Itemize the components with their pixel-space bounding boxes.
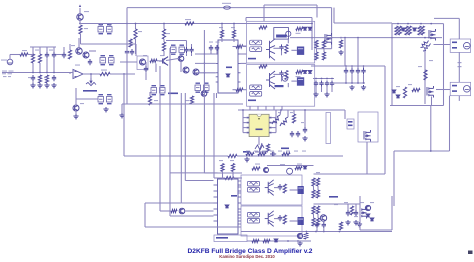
gate driver IC U-B1g [298, 186, 304, 194]
resistor boxed B2b [248, 218, 260, 223]
resistor R36 [339, 40, 342, 48]
wire [170, 215, 214, 217]
diode [402, 28, 406, 31]
wire [458, 52, 460, 82]
resistor R17 [150, 59, 157, 62]
potentiometer VR1 [86, 78, 96, 86]
resistor colB x318d [316, 218, 319, 226]
ground [324, 92, 329, 97]
wire [363, 74, 365, 83]
wire [458, 18, 460, 39]
junction [46, 72, 48, 74]
resistor R30 [266, 144, 269, 152]
wire [76, 98, 98, 100]
wire vertical feed 2 [184, 93, 186, 181]
wire [345, 74, 347, 83]
junction [397, 23, 399, 25]
zener block D7 D8 [195, 85, 209, 91]
resistor R21a [405, 26, 408, 35]
resistor colB x313.5c [312, 206, 315, 214]
wire vertical bus A [159, 66, 161, 211]
transistor Q4 [178, 56, 184, 62]
wire [317, 214, 319, 218]
IC U4 regulator [326, 113, 331, 144]
diode [303, 71, 307, 74]
junction [315, 78, 317, 80]
wire [326, 87, 328, 92]
wire [391, 196, 393, 230]
resistor colB x318b [316, 190, 319, 198]
label A1 [296, 33, 301, 34]
wire [357, 38, 359, 66]
label C3 [28, 77, 32, 78]
wire [287, 110, 289, 117]
label R15 [231, 27, 235, 28]
wire [357, 74, 359, 83]
resistor R28 diagonal [280, 117, 288, 126]
junction [315, 231, 317, 233]
wire [275, 110, 277, 133]
wire [272, 127, 276, 129]
junction [345, 82, 347, 84]
junction [344, 37, 346, 39]
label U3 555 [256, 129, 263, 131]
wire top bus [127, 7, 332, 9]
resistor R20a [395, 26, 398, 35]
junction [331, 78, 333, 80]
wire [243, 132, 247, 134]
resistor R4 [38, 75, 41, 83]
resistor boxed B1a [248, 181, 260, 186]
wire [391, 24, 393, 106]
ground [353, 220, 358, 225]
wire [304, 110, 306, 127]
label U2 [226, 67, 232, 69]
resistor R22b [421, 26, 424, 35]
label U5 [348, 121, 353, 123]
wire [135, 24, 137, 30]
wire [145, 72, 147, 80]
wire vertical right bus [384, 66, 386, 174]
transistor pair Q-B1 [265, 180, 274, 196]
wire [32, 63, 34, 73]
resistor R11 [190, 96, 193, 104]
wire [242, 110, 244, 133]
wire [46, 58, 48, 72]
wire vertical to lower block [213, 93, 215, 178]
svg-text:Kamino Surodipo Dec. 2010: Kamino Surodipo Dec. 2010 [219, 254, 275, 259]
U2 pins left [216, 54, 218, 82]
label R27 [278, 112, 281, 113]
label Q1 [84, 11, 89, 12]
U3 notch [257, 114, 261, 116]
wire [195, 53, 216, 55]
wire [359, 196, 361, 230]
wire [120, 61, 137, 63]
capacitor C6 [189, 47, 193, 53]
resistor boxed B2a [248, 212, 260, 217]
block B1 left pins [238, 181, 242, 193]
connector block bottom [214, 235, 247, 242]
wire [110, 73, 135, 75]
resistor R3 [38, 54, 41, 63]
wire J1 to R1 [9, 55, 11, 60]
wire cap bank rail B [333, 82, 365, 84]
wire [274, 187, 280, 189]
connector OUT- circle [464, 86, 471, 93]
trimmer VR2 [255, 143, 264, 152]
wire [287, 83, 289, 87]
wire [331, 87, 333, 92]
wire [291, 49, 297, 51]
junction [351, 65, 353, 67]
inductor L1 diagonal [421, 41, 429, 48]
transistor Q7 [201, 91, 207, 97]
capacitor C-A11 [279, 44, 283, 50]
junction [123, 73, 125, 75]
ground [357, 222, 362, 227]
IC U6 comparator [218, 179, 239, 234]
resistor RB2 [295, 166, 302, 169]
label U5b [348, 125, 353, 127]
junction [79, 23, 81, 25]
op-amp U1 [73, 70, 83, 79]
junction [391, 37, 393, 39]
capacitor C4 [52, 75, 56, 81]
label R41 [230, 160, 234, 161]
junction [221, 23, 223, 25]
label colB [316, 172, 320, 173]
MOSFET Q10 [429, 29, 436, 41]
diode [413, 28, 417, 31]
wire [331, 8, 333, 49]
zener block D1 D2 [98, 27, 112, 33]
junction [357, 65, 359, 67]
wire [366, 142, 368, 174]
transistor pair Q-B2 [265, 211, 274, 227]
wire [195, 72, 216, 74]
wire [243, 122, 247, 124]
wire [46, 47, 48, 52]
wire [70, 72, 73, 74]
transistor Q1a [76, 48, 82, 54]
wire [273, 73, 281, 75]
junction [242, 109, 244, 111]
wire [347, 204, 349, 210]
IC U2 comparator [218, 40, 238, 93]
diode [370, 218, 374, 221]
wire [272, 132, 276, 134]
capacitor C8 [209, 45, 213, 51]
diode [392, 90, 396, 93]
wire [315, 87, 317, 92]
label C1 [49, 50, 53, 51]
wire [246, 17, 312, 19]
U2 pins right [238, 46, 241, 90]
wire [163, 39, 165, 42]
wire cap bank rail A [313, 78, 334, 80]
wire input ground rail [2, 72, 70, 74]
ground [103, 107, 108, 112]
resistor R-A12 [285, 44, 288, 53]
MOSFET box lower right [358, 112, 378, 142]
wire [53, 47, 55, 52]
wire [89, 50, 96, 52]
resistor R5 [45, 75, 48, 83]
wire [313, 214, 315, 218]
ground [297, 241, 302, 246]
diode [308, 27, 312, 30]
label Q16 [370, 202, 374, 203]
capacitor Cin2 [62, 52, 66, 58]
U6 pins left [214, 185, 218, 227]
capacitor Cc2 [350, 68, 354, 74]
label R7 [185, 19, 191, 20]
resistor R-B11 [283, 184, 286, 193]
wire [293, 110, 295, 114]
wire drop [249, 106, 251, 110]
zener block D5 D6 [151, 88, 165, 94]
wire [216, 51, 218, 54]
transistor QB1 [264, 167, 269, 172]
connector OUT- box [450, 82, 470, 95]
wire [241, 62, 247, 64]
wire [90, 74, 92, 78]
diode [303, 166, 307, 169]
wire [234, 177, 242, 179]
label Q3 [160, 55, 164, 56]
wire [315, 43, 317, 45]
label R8 [138, 31, 142, 32]
label R1 [22, 50, 27, 51]
capacitor Cc4 [361, 68, 365, 74]
wire [63, 47, 65, 52]
wire [255, 151, 268, 153]
label R2 [35, 50, 39, 51]
U6 pins right [238, 185, 241, 227]
resistor R9 [162, 29, 165, 39]
wire [351, 66, 353, 68]
resistor boxed A1a [250, 40, 262, 45]
resistor R45 [263, 239, 270, 242]
wire [221, 24, 223, 31]
junction [204, 53, 206, 55]
junction [323, 231, 325, 233]
resistor colB x318c [316, 206, 319, 214]
ground [338, 50, 343, 55]
footer mark [468, 251, 473, 255]
junction [163, 23, 165, 25]
resistor R14 [220, 30, 223, 38]
U3 pins [247, 117, 250, 119]
wire [351, 74, 353, 83]
wire [56, 54, 62, 56]
ground [30, 83, 35, 88]
wire long vertical [126, 8, 128, 104]
junction [430, 150, 432, 152]
label RB2 [297, 164, 302, 165]
wire [145, 226, 241, 228]
junction [287, 240, 289, 242]
resistor R35 [350, 206, 353, 215]
junction [53, 72, 55, 74]
diode [225, 205, 229, 208]
wire [191, 53, 193, 56]
wire [39, 47, 41, 54]
wire [430, 106, 432, 152]
resistor R1 [20, 53, 28, 56]
capacitor C16 [270, 152, 276, 156]
diode [303, 27, 307, 30]
transistor Q1b [83, 52, 89, 58]
capacitor C14 [354, 210, 358, 216]
capacitor C5b [130, 49, 134, 55]
label input text line1b [9, 71, 14, 72]
fuse F1 [224, 6, 231, 9]
wire [243, 117, 247, 119]
wire vertical bus B [169, 48, 171, 216]
wire [163, 51, 165, 56]
wire [181, 202, 213, 204]
ground [51, 83, 56, 88]
label R10 [154, 100, 158, 101]
wire [135, 39, 137, 54]
wire [280, 110, 281, 115]
optocoupler U-A2 [282, 75, 288, 81]
resistor R13 [228, 154, 237, 157]
wire [267, 165, 314, 167]
wire [243, 89, 247, 91]
label C12 [301, 122, 304, 123]
junction [306, 231, 308, 233]
resistor R8 [134, 29, 137, 39]
ground [73, 114, 78, 119]
label C14 [344, 202, 348, 203]
wire [363, 66, 365, 68]
resistor R25 [403, 87, 406, 98]
wire output bottom rail [390, 105, 444, 107]
ground [44, 83, 49, 88]
wire [233, 46, 237, 48]
wire drop [265, 106, 267, 110]
label input text line2a [2, 73, 6, 74]
label mid dashes [458, 62, 462, 63]
wire [458, 96, 460, 101]
label TC4420 [329, 196, 338, 198]
wire [75, 88, 77, 105]
wire [316, 228, 318, 231]
resistor colB x318a [316, 178, 319, 186]
wire [28, 54, 33, 56]
resistor R-A14 [236, 45, 243, 48]
label C15 [354, 216, 358, 217]
wire [195, 62, 216, 64]
capacitor C11 [296, 131, 300, 137]
wire [185, 210, 214, 212]
wire [163, 24, 165, 30]
gate driver IC U-A1g [297, 47, 304, 55]
junction [340, 37, 342, 39]
resistor [412, 88, 420, 91]
resistor R12 feedback [100, 72, 110, 75]
wire [345, 66, 347, 68]
resistor colB x313.5a [312, 178, 315, 186]
resistor R21b [408, 26, 411, 35]
wire [394, 150, 450, 152]
wire [144, 203, 146, 227]
wire [281, 51, 283, 56]
resistor col x324a [322, 40, 325, 48]
ground [244, 157, 249, 162]
capacitor C5 [184, 47, 188, 53]
transistor [365, 205, 370, 210]
resistor boxed A2b [250, 92, 262, 97]
junction [357, 82, 359, 84]
wire [155, 64, 157, 72]
wire [39, 63, 41, 73]
junction [363, 82, 365, 84]
wire rail ext [334, 22, 392, 24]
resistor R-A22 [285, 71, 288, 80]
label J1 [1, 60, 7, 61]
junction [351, 82, 353, 84]
label Q2 [143, 55, 147, 56]
wire [221, 38, 223, 42]
IC U5 small box [347, 119, 354, 129]
resistor boxed B1b [248, 187, 260, 192]
resistor R41 [231, 164, 234, 172]
wire [191, 44, 193, 47]
resistor R-A2-1 [259, 65, 267, 68]
resistor R33 [258, 152, 266, 155]
capacitor Cb4 [330, 81, 334, 87]
junction [233, 23, 235, 25]
label bias [168, 93, 178, 95]
label row 0 [246, 151, 250, 152]
label row 7 [302, 151, 306, 152]
diode [274, 239, 278, 242]
wire [109, 24, 111, 27]
wire [321, 87, 323, 92]
wire [241, 53, 247, 55]
label input text line1a [2, 71, 7, 72]
capacitor C-A21 [279, 71, 283, 77]
wire [186, 53, 188, 56]
junction [345, 65, 347, 67]
capacitor Cc1 [344, 68, 348, 74]
connector OUT+ box [450, 39, 470, 52]
wire [287, 39, 289, 43]
junction [363, 65, 365, 67]
resistor colB x313.5b [312, 190, 315, 198]
diode [308, 71, 312, 74]
resistor R9b [162, 42, 165, 51]
wire rail mid supply [80, 23, 312, 25]
resistor boxed A2a [250, 85, 262, 90]
label IRS20124 [281, 148, 289, 150]
junction [331, 37, 333, 39]
resistor R29 [292, 114, 295, 123]
wire [204, 172, 242, 174]
resistor col x324b [322, 52, 325, 60]
wire [245, 18, 247, 22]
wire [32, 47, 34, 55]
label R28 [290, 112, 293, 113]
resistor R2 [31, 54, 34, 63]
capacitor C7 [144, 66, 148, 72]
wire feedback bottom [124, 155, 228, 157]
MOSFET Q15 [360, 207, 367, 219]
